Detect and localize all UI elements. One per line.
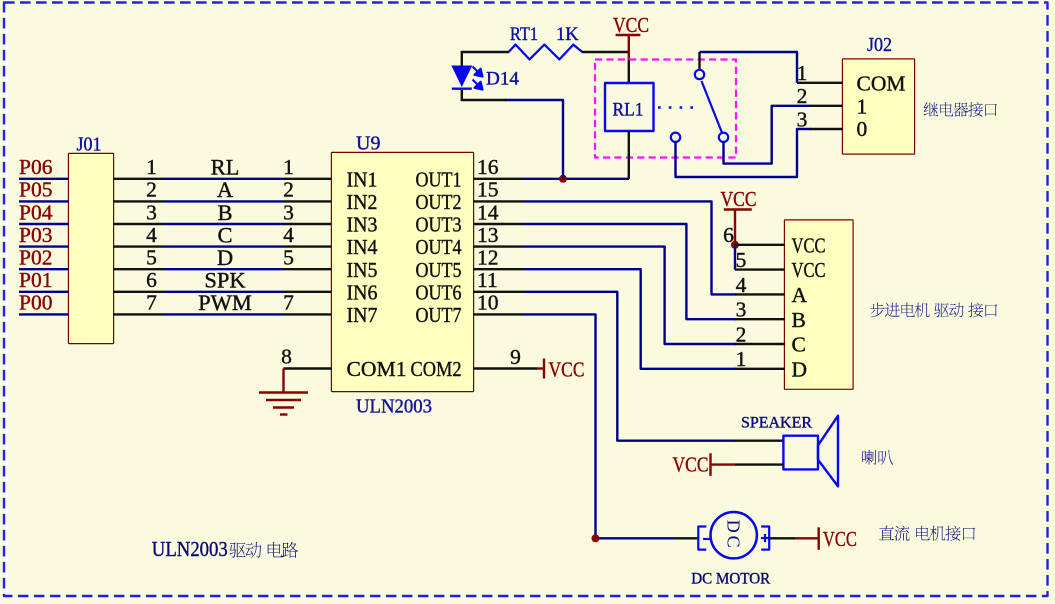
- svg-text:6: 6: [723, 223, 734, 247]
- svg-text:1: 1: [146, 155, 157, 179]
- LED D14 cathode bar: [452, 87, 472, 89]
- power VCC (stepper): [721, 187, 757, 245]
- J01 pin 5: [113, 246, 164, 270]
- U9 output pin 11: [473, 268, 524, 292]
- U9 output pin 13: [473, 223, 524, 247]
- U9 output pin 16: [473, 155, 524, 179]
- svg-text:DC MOTOR: DC MOTOR: [691, 571, 770, 588]
- speaker top pin: [735, 440, 784, 442]
- svg-text:C: C: [217, 222, 232, 247]
- svg-text:OUT1: OUT1: [416, 167, 462, 191]
- svg-text:J02: J02: [867, 34, 892, 56]
- svg-text:J01: J01: [77, 134, 102, 156]
- U9 pin IN3 lead: [284, 223, 333, 225]
- motor right pin: [769, 537, 795, 539]
- wire RT1 to VCC node: [582, 51, 629, 53]
- wire OUT2 to stepper A: [524, 201, 737, 294]
- J01 pin 7: [113, 291, 164, 315]
- svg-text:VCC: VCC: [549, 358, 585, 382]
- J01 pin 6: [113, 268, 164, 292]
- svg-text:4: 4: [736, 273, 747, 297]
- U9 output pin 12: [473, 246, 524, 270]
- svg-text:IN7: IN7: [347, 303, 378, 327]
- svg-text:4: 4: [283, 223, 294, 247]
- svg-text:5: 5: [283, 246, 294, 270]
- wire P03 to J01: [19, 245, 69, 247]
- svg-text:8: 8: [281, 345, 292, 369]
- U9 pin IN1 lead: [284, 178, 333, 180]
- U9 pin IN6 lead: [284, 291, 333, 293]
- svg-text:3: 3: [146, 200, 157, 224]
- wire OUT3 to stepper B: [524, 224, 737, 319]
- wire OUT1 to relay coil: [524, 178, 630, 180]
- wire OUT7 to motor: [524, 314, 676, 538]
- svg-text:P03: P03: [19, 223, 52, 247]
- RL1 coil bottom pin: [628, 131, 630, 179]
- power VCC (speaker): [673, 453, 735, 477]
- wire P04 to J01: [19, 223, 69, 225]
- J02 pin 2: [797, 84, 843, 108]
- svg-text:COM1: COM1: [347, 357, 407, 381]
- junction dot VCC/pin6: [731, 241, 739, 249]
- svg-text:IN4: IN4: [347, 235, 378, 259]
- svg-text:1: 1: [736, 347, 747, 371]
- wire NC contact to J02 pin 3: [676, 129, 812, 177]
- stepper pin 6: [723, 223, 785, 247]
- wire P00 to J01: [19, 313, 69, 315]
- svg-text:U9: U9: [356, 133, 380, 155]
- wire net RL (J01 to U9): [164, 178, 284, 180]
- J01 pin 2: [113, 178, 164, 202]
- svg-text:A: A: [217, 177, 234, 202]
- svg-text:1: 1: [283, 155, 294, 179]
- wire NO contact to J02 pin 2: [724, 106, 812, 164]
- svg-text:P05: P05: [19, 178, 52, 202]
- svg-text:7: 7: [283, 291, 294, 315]
- svg-text:SPK: SPK: [204, 268, 246, 293]
- svg-text:IN3: IN3: [347, 213, 378, 237]
- ground symbol: [259, 369, 308, 415]
- LED D14 triangle: [451, 66, 472, 88]
- connector J01: [69, 154, 113, 343]
- wire VCC to stepper pin 5: [734, 245, 736, 270]
- svg-text:9: 9: [510, 345, 521, 369]
- label 继电器接口: [924, 102, 997, 117]
- wire OUT6 to speaker: [524, 292, 736, 441]
- svg-text:ULN2003: ULN2003: [152, 537, 228, 561]
- svg-text:10: 10: [477, 291, 499, 315]
- power VCC (motor): [796, 527, 857, 551]
- svg-text:RL: RL: [211, 155, 240, 180]
- svg-text:OUT5: OUT5: [416, 258, 462, 282]
- connector J02: [843, 60, 914, 154]
- svg-text:P06: P06: [19, 155, 53, 179]
- wire net SPK (J01 to U9): [164, 291, 284, 293]
- svg-text:3: 3: [797, 107, 808, 131]
- svg-text:IN1: IN1: [347, 167, 378, 191]
- junction dot OUT1/LED: [559, 175, 567, 183]
- svg-text:2: 2: [283, 178, 294, 202]
- relay coil RL1: [605, 83, 654, 131]
- power VCC (relay): [613, 13, 649, 60]
- svg-text:IN5: IN5: [347, 258, 378, 282]
- svg-text:VCC: VCC: [823, 527, 857, 551]
- connector stepper box: [785, 221, 853, 389]
- svg-text:D14: D14: [486, 70, 519, 90]
- svg-text:OUT3: OUT3: [416, 213, 462, 237]
- wire LED cathode black segment: [461, 99, 506, 101]
- svg-text:13: 13: [477, 223, 499, 247]
- svg-text:4: 4: [146, 223, 157, 247]
- svg-text:OUT4: OUT4: [416, 235, 462, 259]
- wire P06 to J01: [19, 178, 69, 180]
- svg-text:P01: P01: [19, 268, 52, 292]
- svg-text:12: 12: [477, 246, 499, 270]
- resistor RT1: [509, 45, 583, 60]
- svg-text:COM: COM: [857, 72, 906, 96]
- stepper pin 3: [735, 298, 785, 322]
- svg-text:VCC: VCC: [673, 453, 709, 477]
- svg-text:1K: 1K: [556, 25, 579, 45]
- svg-text:0: 0: [857, 117, 868, 141]
- svg-text:OUT2: OUT2: [416, 190, 462, 214]
- svg-text:14: 14: [477, 200, 499, 224]
- IC U9 body: [332, 153, 473, 391]
- J02 pin 1: [797, 61, 843, 85]
- speaker symbol: [783, 416, 838, 487]
- power VCC at pin 9: [537, 358, 585, 382]
- svg-text:2: 2: [797, 84, 808, 108]
- svg-text:7: 7: [146, 291, 157, 315]
- U9 output pin 15: [473, 178, 524, 202]
- svg-text:D: D: [217, 245, 233, 270]
- stepper pin 4: [735, 273, 785, 297]
- svg-text:B: B: [792, 308, 806, 332]
- svg-text:1: 1: [857, 95, 868, 119]
- title ULN2003 driver circuit: [152, 537, 298, 561]
- U9 pin IN5 lead: [284, 268, 333, 270]
- svg-text:B: B: [217, 200, 232, 225]
- wire net PWM (J01 to U9): [164, 313, 284, 315]
- svg-text:VCC: VCC: [613, 13, 649, 37]
- wire LED anode to RT1: [462, 51, 509, 53]
- wire LED cathode down to OUT1: [505, 100, 563, 179]
- svg-text:A: A: [792, 283, 808, 307]
- svg-text:COM2: COM2: [411, 357, 462, 381]
- wire net B (J01 to U9): [164, 223, 284, 225]
- wire P01 to J01: [19, 291, 69, 293]
- U9 output pin 14: [473, 200, 524, 224]
- LED D14 light arrows: [473, 67, 483, 90]
- svg-text:VCC: VCC: [721, 187, 757, 211]
- U9 pin IN2 lead: [284, 200, 333, 202]
- U9 pin 9 (COM2): [473, 345, 537, 369]
- U9 pin 8 (COM1): [281, 345, 332, 369]
- U9 pin IN7 lead: [284, 313, 333, 315]
- speaker bottom pin: [735, 463, 784, 465]
- stepper pin 1: [735, 347, 785, 371]
- stepper pin 5: [735, 248, 785, 272]
- svg-text:2: 2: [736, 322, 747, 346]
- J01 pin 3: [113, 200, 164, 224]
- wire net C (J01 to U9): [164, 245, 284, 247]
- svg-text:IN6: IN6: [347, 280, 378, 304]
- U9 pin IN4 lead: [284, 245, 333, 247]
- svg-text:5: 5: [146, 246, 157, 270]
- svg-text:11: 11: [477, 268, 498, 292]
- relay linkage dots: [658, 106, 696, 109]
- svg-text:15: 15: [477, 178, 499, 202]
- relay RL1 outline: [595, 60, 736, 158]
- motor left pin: [674, 537, 698, 539]
- svg-text:VCC: VCC: [792, 233, 826, 257]
- svg-text:5: 5: [736, 248, 747, 272]
- label 直流电机接口: [879, 526, 975, 541]
- relay contact NO: [719, 133, 728, 142]
- label 步进电机驱动接口: [870, 303, 997, 318]
- svg-text:P04: P04: [19, 200, 53, 224]
- svg-text:D: D: [792, 357, 808, 381]
- svg-text:SPEAKER: SPEAKER: [741, 415, 812, 432]
- svg-text:VCC: VCC: [792, 258, 826, 282]
- wire net A (J01 to U9): [164, 200, 284, 202]
- svg-text:IN2: IN2: [347, 190, 378, 214]
- svg-text:OUT7: OUT7: [416, 303, 462, 327]
- label 喇叭: [862, 450, 893, 465]
- LED D14 cathode pin: [461, 90, 463, 100]
- relay contact NC: [671, 133, 680, 142]
- wire P05 to J01: [19, 200, 69, 202]
- relay armature: [702, 81, 722, 132]
- wire VCC to RL1 coil: [628, 60, 630, 84]
- svg-text:1: 1: [797, 61, 808, 85]
- J01 pin 1: [113, 155, 164, 179]
- svg-text:DC: DC: [724, 520, 744, 551]
- svg-text:P02: P02: [19, 246, 52, 270]
- svg-text:16: 16: [477, 155, 499, 179]
- wire P02 to J01: [19, 268, 69, 270]
- svg-text:PWM: PWM: [198, 290, 252, 315]
- stepper pin 2: [735, 322, 785, 346]
- J01 pin 4: [113, 223, 164, 247]
- svg-text:P00: P00: [19, 291, 52, 315]
- svg-text:OUT6: OUT6: [416, 280, 462, 304]
- wire OUT4 to stepper C: [524, 247, 737, 344]
- J02 pin 3: [797, 107, 843, 131]
- LED D14 anode pin: [461, 51, 463, 66]
- relay common contact: [695, 52, 704, 79]
- wire common to J02 pin 1: [700, 52, 798, 83]
- svg-text:6: 6: [146, 268, 157, 292]
- svg-text:2: 2: [146, 178, 157, 202]
- svg-text:RT1: RT1: [510, 25, 538, 45]
- svg-text:RL1: RL1: [613, 101, 644, 121]
- junction dot motor wire: [592, 534, 600, 542]
- wire net D (J01 to U9): [164, 268, 284, 270]
- svg-text:3: 3: [736, 298, 747, 322]
- U9 output pin 10: [473, 291, 524, 315]
- motor M symbol: [698, 512, 769, 558]
- svg-text:ULN2003: ULN2003: [356, 396, 432, 418]
- wire OUT5 to stepper D: [524, 269, 737, 369]
- svg-text:C: C: [792, 333, 806, 357]
- svg-text:3: 3: [283, 200, 294, 224]
